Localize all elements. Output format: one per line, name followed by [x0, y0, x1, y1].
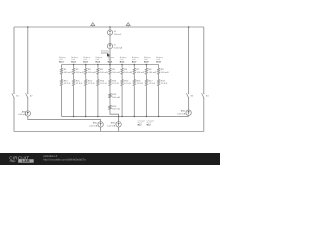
node label block cell 1	[59, 56, 67, 63]
net flag arrow 1	[91, 23, 95, 28]
wire right outer branch	[203, 27, 205, 132]
wire branch 3	[85, 65, 87, 117]
wire right inner branch	[188, 27, 190, 116]
switch S4	[202, 93, 210, 99]
wire branch 4	[97, 65, 99, 117]
ammeter AM2	[89, 122, 103, 128]
switch S2	[26, 93, 34, 99]
wire bottom bus	[62, 115, 189, 117]
wire branch 8	[145, 65, 147, 117]
resistor R2	[72, 67, 83, 75]
wire left inner branch	[28, 27, 101, 132]
resistor R1	[60, 67, 71, 75]
resistor R3	[85, 67, 96, 75]
wire branch 7	[133, 65, 135, 117]
ammeter AM4	[177, 110, 191, 116]
watermark bar	[0, 153, 220, 165]
resistor R16	[133, 79, 143, 87]
node label block cell 3	[83, 56, 91, 63]
node label block cell 6	[120, 56, 128, 63]
mouse cursor	[107, 53, 110, 57]
node label block cell 9	[156, 56, 164, 63]
node label block cell 8	[144, 56, 152, 63]
resistor R8	[145, 67, 156, 75]
voltage source V1	[107, 30, 121, 36]
wire branch 1	[61, 65, 63, 117]
ammeter AM1	[18, 110, 30, 116]
resistor R13	[97, 79, 107, 87]
svg-text:LAB: LAB	[22, 159, 30, 163]
resistor R14	[109, 79, 119, 87]
wire branch 2	[73, 65, 75, 117]
resistor R4	[97, 67, 108, 75]
annotation tooltip	[101, 51, 108, 54]
resistor R17	[145, 79, 155, 87]
net flag arrow 2	[126, 23, 130, 28]
resistor R11	[72, 79, 82, 87]
CircuitLab logo	[9, 155, 33, 163]
node label block cell 2	[71, 56, 79, 63]
watermark text	[43, 154, 86, 162]
resistor R12	[85, 79, 95, 87]
wire left outer branch	[13, 27, 15, 132]
wire branch 6	[121, 65, 123, 117]
resistor R5	[109, 67, 120, 75]
ammeter AM3	[107, 122, 121, 128]
node label block cell 4	[96, 56, 104, 63]
wire branch 9	[158, 65, 160, 117]
resistor R10	[60, 79, 70, 87]
resistor R18	[157, 79, 167, 87]
resistor R9	[157, 67, 168, 75]
current meter I1	[107, 44, 122, 50]
wire source chain	[109, 27, 111, 65]
resistor R7	[133, 67, 144, 75]
node label block pack 2	[147, 119, 155, 126]
resistor R15	[121, 79, 131, 87]
wire branch 5	[110, 65, 119, 132]
resistor R6	[121, 67, 132, 75]
wire top rail	[14, 26, 204, 28]
node label block cell 7	[132, 56, 140, 63]
node label block pack 1	[138, 119, 146, 126]
junction dots	[27, 26, 189, 117]
wire bottom rail	[14, 131, 204, 133]
node label block cell 5	[108, 56, 116, 63]
wire top bus	[62, 64, 159, 66]
switch S3	[186, 93, 194, 99]
resistor R20	[109, 104, 120, 110]
switch S1	[12, 93, 20, 99]
resistor R19	[109, 93, 120, 99]
